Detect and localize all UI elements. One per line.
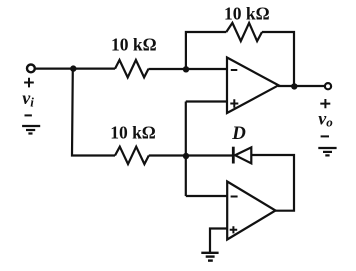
- svg-text:10 kΩ: 10 kΩ: [224, 4, 270, 24]
- output terminal: [325, 83, 331, 89]
- op-amp U1: [227, 58, 279, 114]
- resistor R1: [115, 60, 149, 77]
- svg-text:10 kΩ: 10 kΩ: [110, 123, 156, 143]
- wire R3 to diode node: [149, 154, 233, 156]
- wire diode anode to U2 output vertical: [251, 155, 294, 211]
- resistor R3: [115, 147, 149, 164]
- svg-text:D: D: [231, 123, 246, 144]
- wire U1 output to vo terminal: [278, 85, 325, 87]
- resistor R2: [226, 23, 262, 41]
- label minus at output: [321, 135, 329, 137]
- junction dot input node: [70, 65, 76, 71]
- junction dot feedback tap: [183, 66, 189, 72]
- svg-text:vo: vo: [318, 109, 333, 130]
- ground at U2 plus input: [201, 253, 218, 261]
- label minus at input: [25, 114, 32, 116]
- ground at output: [318, 148, 336, 155]
- label plus at input: [24, 78, 34, 88]
- input terminal: [27, 65, 35, 73]
- label plus at output: [320, 99, 330, 108]
- junction dot output node: [291, 83, 297, 89]
- wire R1 to op-amp U1 minus input: [149, 68, 228, 70]
- junction dot node A: [183, 153, 189, 159]
- wire branch down from input node: [72, 69, 115, 156]
- op-amp U2: [227, 182, 275, 240]
- wire U1 plus input from node A: [186, 100, 227, 102]
- wire input to R1: [35, 67, 115, 69]
- wire U2 minus input: [186, 195, 228, 197]
- ground at input: [22, 126, 40, 134]
- svg-text:vi: vi: [22, 88, 34, 110]
- wire U2 plus input to ground stem: [210, 229, 228, 253]
- wire feedback up and over (left side): [186, 32, 226, 69]
- wire feedback right side down to output node: [262, 32, 294, 86]
- svg-text:10 kΩ: 10 kΩ: [111, 35, 157, 55]
- wire node A vertical: [185, 102, 187, 197]
- diode D: [233, 147, 251, 164]
